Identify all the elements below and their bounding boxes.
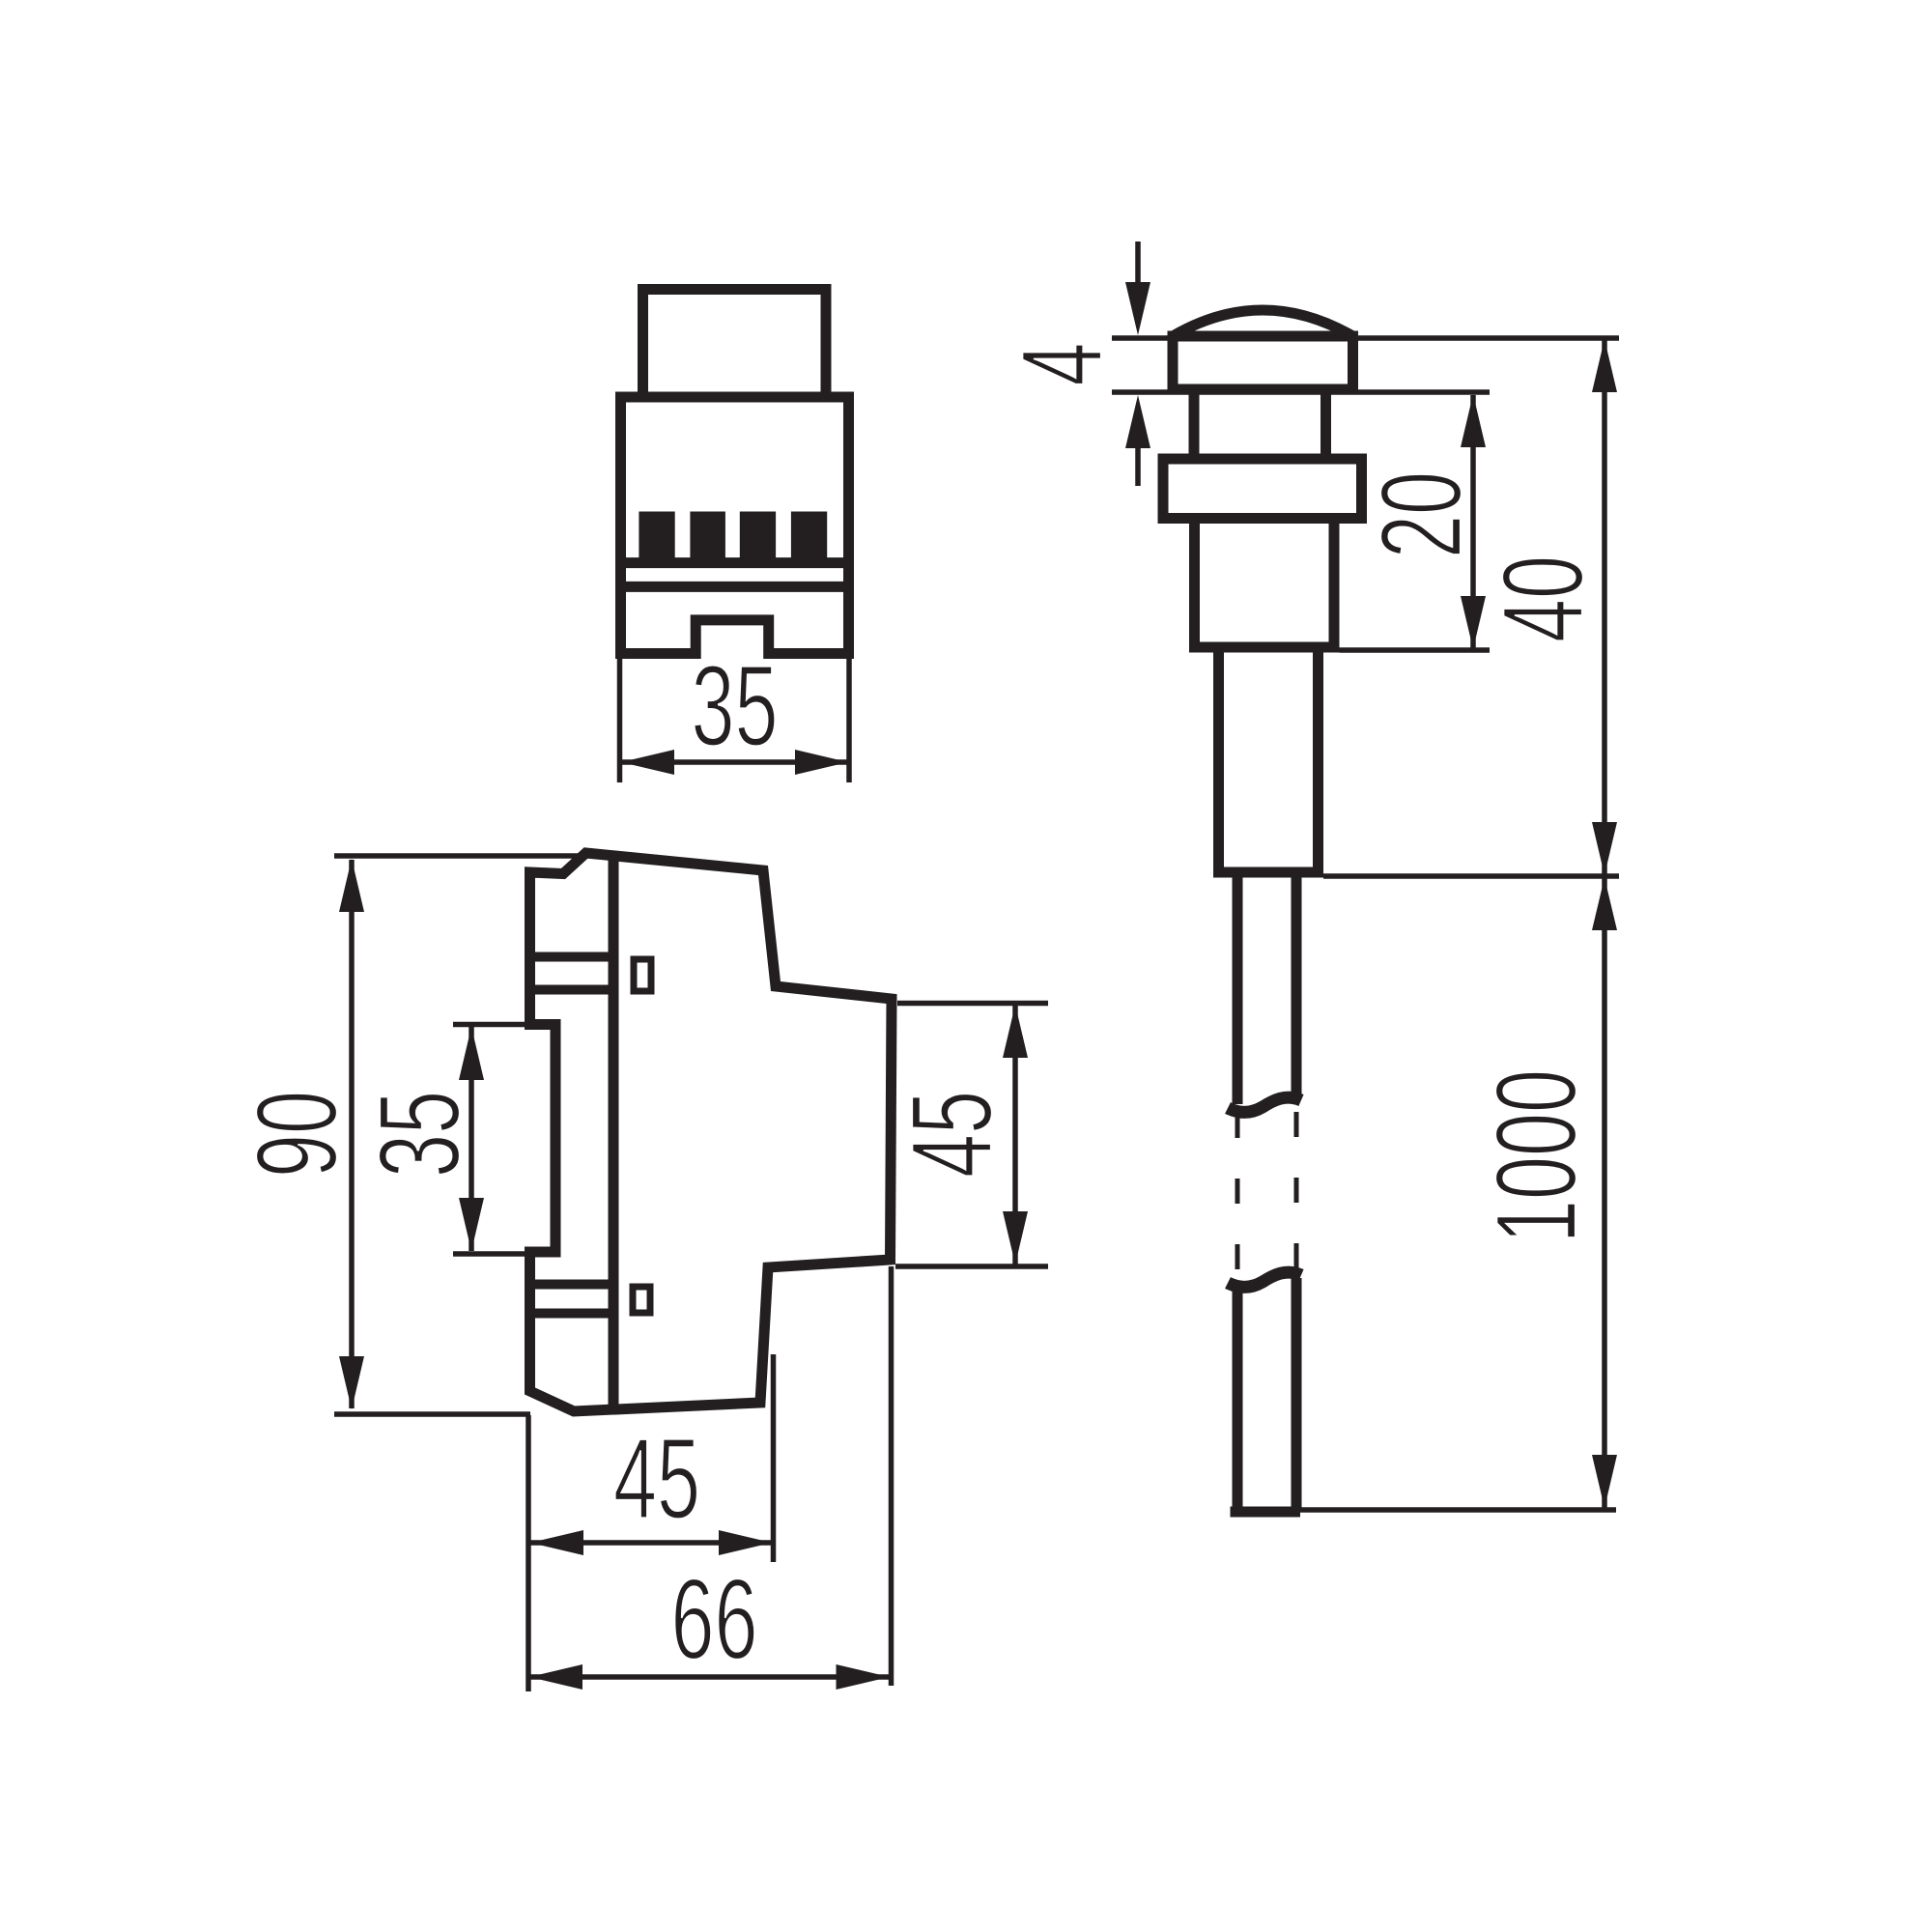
extension line left (35 width): [617, 659, 623, 782]
dimension 4 upper arrow: [1135, 241, 1141, 290]
probe sleeve right wall: [1313, 653, 1323, 873]
extension line cable end: [1300, 1507, 1616, 1513]
dimension line 1000: [1602, 878, 1607, 1508]
horizontal rib line 1: [615, 557, 854, 568]
extension line left (45/66 depth): [525, 1415, 531, 1691]
extension line head bottom: [1112, 389, 1490, 395]
extension line lens top: [1112, 335, 1619, 341]
dimension line 66: [529, 1674, 890, 1680]
latch window lower: [633, 1287, 650, 1313]
svg-text:1000: 1000: [1471, 1069, 1600, 1243]
rail slot rib lower 1: [534, 1280, 613, 1290]
extension line right (35 width): [846, 659, 852, 782]
cable left wall dashed: [1235, 1113, 1240, 1269]
extension line top (45 height): [897, 1001, 1048, 1007]
dimension 4 lower arrow: [1135, 444, 1141, 486]
extension line right (66 depth): [889, 1266, 895, 1686]
svg-text:45: 45: [887, 1091, 1015, 1178]
cable right wall dashed: [1294, 1112, 1299, 1274]
extension line body bottom: [1340, 647, 1491, 653]
svg-text:20: 20: [1356, 471, 1485, 558]
probe head: [1173, 336, 1353, 389]
cable left wall upper: [1233, 878, 1243, 1105]
extension line right (45 depth): [771, 1354, 777, 1562]
dimension line 35 (front): [621, 759, 848, 765]
terminal block 4: [791, 512, 827, 563]
probe sleeve bottom cap: [1213, 867, 1323, 878]
probe flange nut: [1163, 459, 1362, 519]
front face line: [609, 856, 619, 1408]
horizontal rib line 2: [615, 582, 854, 592]
dimension line 45 (height): [1012, 1006, 1018, 1264]
dimension line 90: [349, 860, 355, 1408]
probe lens dome: [1173, 310, 1353, 336]
cable bottom end: [1231, 1507, 1301, 1518]
cable break squiggle lower: [1228, 1272, 1301, 1287]
rail slot rib lower 2: [534, 1309, 613, 1319]
extension line bottom (90 height): [334, 1411, 530, 1417]
extension line bottom (45 height): [895, 1264, 1048, 1269]
svg-text:45: 45: [613, 1414, 700, 1543]
terminal block 3: [740, 512, 776, 563]
terminal block 2: [690, 512, 725, 563]
cable right wall upper: [1292, 878, 1302, 1095]
svg-text:35: 35: [355, 1091, 483, 1178]
rail slot rib upper 1: [534, 952, 613, 962]
cable break squiggle upper: [1228, 1097, 1301, 1112]
latch window upper: [634, 959, 651, 991]
extension line top (90 height): [334, 853, 588, 859]
svg-text:90: 90: [232, 1091, 360, 1178]
probe body: [1195, 519, 1335, 648]
svg-text:40: 40: [1478, 555, 1606, 642]
cable left wall lower: [1233, 1282, 1243, 1512]
dimension line 35 (rail): [469, 1027, 474, 1251]
rail slot rib upper 2: [534, 985, 613, 995]
extension line top (35 rail): [453, 1022, 525, 1028]
side profile outline: [530, 853, 893, 1411]
dimension line 45 (depth): [530, 1540, 772, 1546]
module cap (top knob): [643, 290, 827, 396]
cable right wall lower: [1292, 1278, 1302, 1512]
probe sleeve left wall: [1213, 653, 1224, 873]
extension line bottom (35 rail): [453, 1251, 525, 1257]
dimension line 20: [1470, 395, 1476, 648]
probe neck: [1194, 389, 1326, 459]
module body outline with bottom DIN notch: [621, 397, 849, 654]
terminal block 1: [639, 512, 674, 563]
svg-text:66: 66: [670, 1554, 757, 1683]
extension line sleeve bottom: [1323, 873, 1619, 879]
dimension line 40: [1602, 340, 1607, 874]
svg-text:35: 35: [691, 641, 778, 770]
svg-text:4: 4: [997, 342, 1125, 385]
